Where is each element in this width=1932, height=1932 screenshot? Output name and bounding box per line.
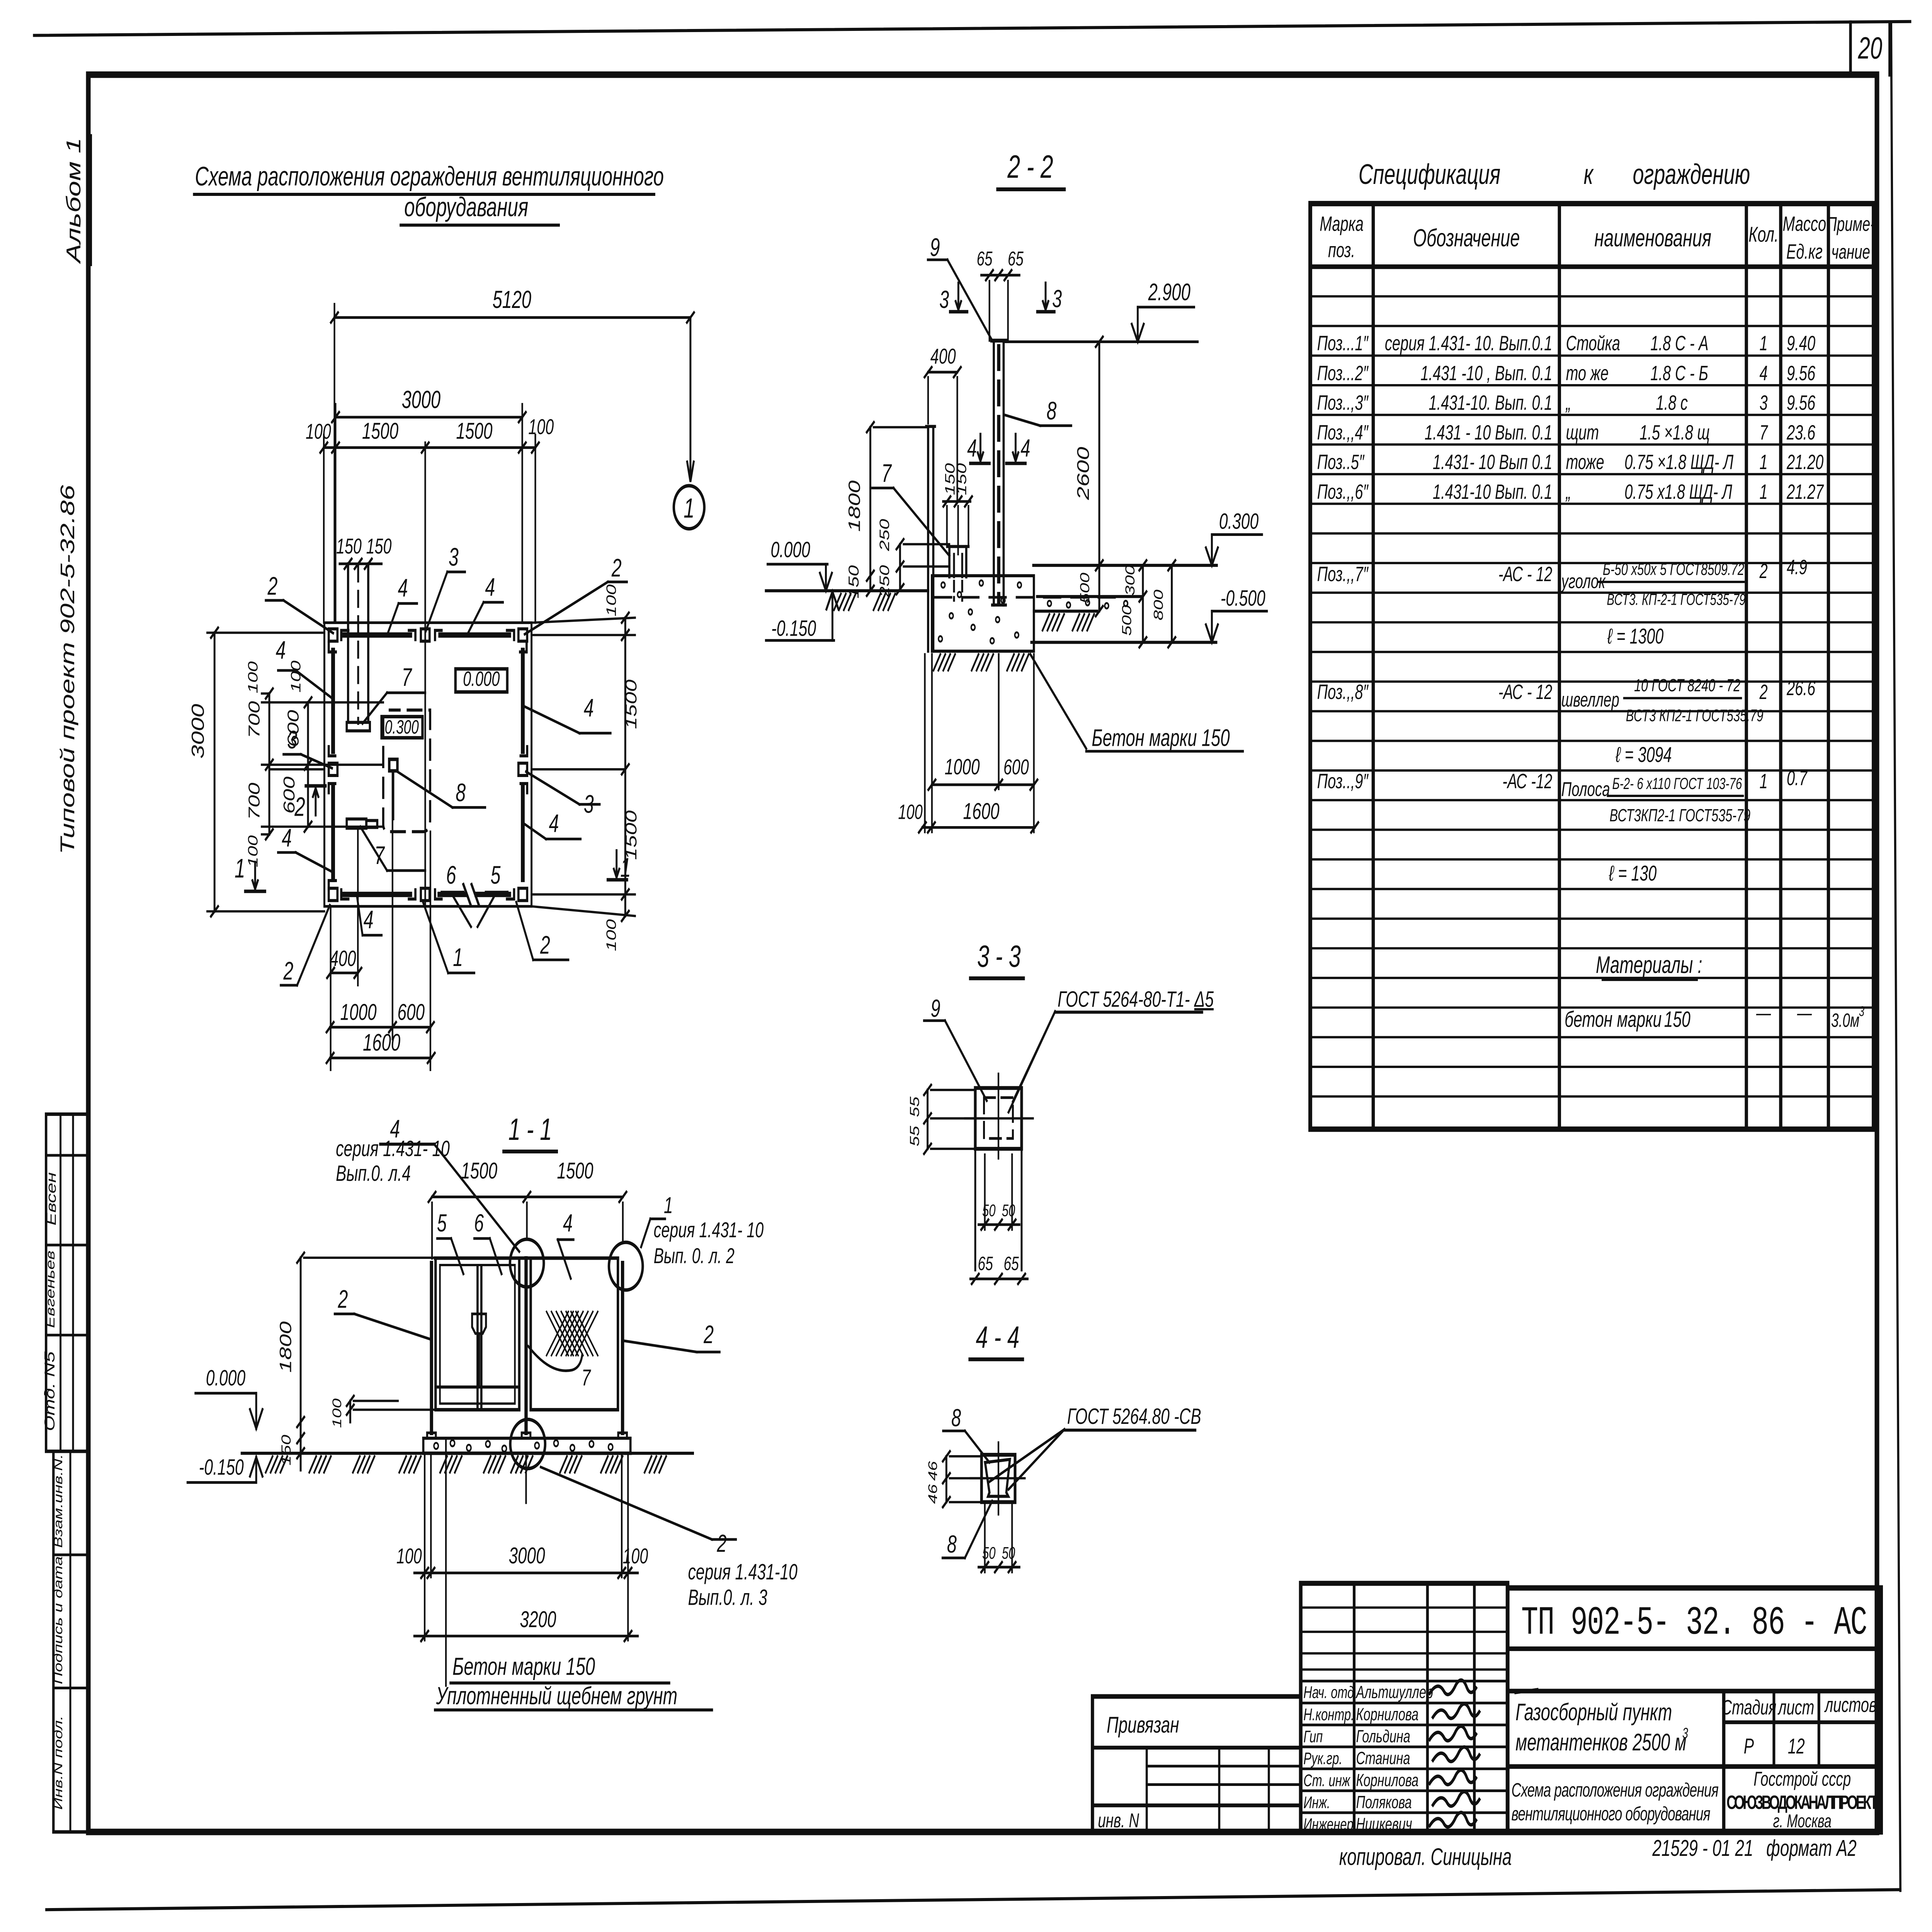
leader 2 (top-left corner post) [284, 600, 333, 633]
svg-text:3 - 3: 3 - 3 [977, 939, 1021, 973]
2-2 right dim 500 (on 2600 line) [1096, 560, 1103, 570]
svg-text:55: 55 [907, 1096, 922, 1117]
plan: right panels (thick) [520, 650, 526, 751]
svg-text:щит: щит [1566, 421, 1599, 444]
svg-text:1500: 1500 [557, 1158, 593, 1184]
plan: 0.000 level frame [456, 669, 507, 692]
svg-text:4: 4 [1759, 362, 1767, 385]
svg-text:4: 4 [485, 573, 495, 602]
svg-text:10 ГОСТ 8240 - 72: 10 ГОСТ 8240 - 72 [1634, 675, 1740, 695]
1-1 dim 3200 [414, 1635, 638, 1638]
svg-text:9.40: 9.40 [1787, 332, 1815, 355]
svg-text:6: 6 [474, 1209, 484, 1237]
svg-text:500: 500 [1078, 573, 1092, 604]
title mid/bottom split [1508, 1764, 1881, 1769]
svg-text:г. Москва: г. Москва [1773, 1811, 1832, 1831]
svg-text:2: 2 [611, 554, 622, 582]
svg-text:1.431 -10 , Вып. 0.1: 1.431 -10 , Вып. 0.1 [1420, 362, 1552, 385]
svg-text:2: 2 [1759, 560, 1768, 583]
svg-text:Вып.0. л.4: Вып.0. л.4 [336, 1161, 411, 1186]
section mark 1 (bottom-left) [254, 862, 257, 889]
leader 4 (left panel lower) [296, 852, 332, 872]
svg-text:300: 300 [1123, 565, 1138, 596]
svg-text:1.431 - 10 Вып. 0.1: 1.431 - 10 Вып. 0.1 [1425, 421, 1553, 444]
svg-text:„: „ [1565, 480, 1571, 503]
1-1 note underlines [451, 1682, 669, 1685]
svg-text:поз.: поз. [1328, 238, 1355, 262]
svg-text:250: 250 [877, 519, 892, 551]
svg-text:3000: 3000 [402, 386, 441, 413]
svg-text:21.20: 21.20 [1786, 451, 1823, 474]
svg-text:ГОСТ 5264-80-Т1- Δ5: ГОСТ 5264-80-Т1- Δ5 [1058, 987, 1214, 1012]
svg-text:2: 2 [703, 1320, 714, 1349]
svg-text:150: 150 [954, 463, 969, 495]
4-4 dim 50/50 (bottom) [978, 1566, 1019, 1568]
1-1 level -0.150 [187, 1481, 256, 1484]
svg-text:4: 4 [398, 574, 408, 602]
svg-text:Вып. 0. л. 2: Вып. 0. л. 2 [654, 1244, 735, 1268]
svg-text:Материалы :: Материалы : [1596, 952, 1702, 978]
plan dim 5120 [335, 316, 690, 319]
1-1 door handle [472, 1314, 486, 1333]
svg-text:1.431-10 Вып. 0.1: 1.431-10 Вып. 0.1 [1433, 480, 1552, 503]
4-4 center lines [997, 1442, 1000, 1514]
signature table label rows [1301, 1680, 1507, 1682]
svg-text:7: 7 [374, 841, 385, 870]
plan post D (mid-left) [329, 763, 338, 776]
spec table row lines [1310, 295, 1874, 298]
svg-text:4: 4 [563, 1209, 573, 1237]
svg-text:Поз.,,6″: Поз.,,6″ [1317, 480, 1369, 503]
2-2 leader 9 [947, 260, 992, 341]
svg-text:50: 50 [982, 1544, 996, 1563]
svg-text:7: 7 [1759, 421, 1768, 444]
spec table header bottom [1310, 264, 1874, 269]
svg-text:3200: 3200 [520, 1606, 556, 1632]
svg-text:3.0м: 3.0м [1831, 1010, 1859, 1031]
3-3 dim 65/65 [970, 1277, 1027, 1280]
2-2 ground line left [766, 589, 928, 592]
svg-text:5120: 5120 [493, 286, 532, 313]
1-1 dim 1800 (left) [299, 1258, 302, 1422]
3-3 base plate square [975, 1088, 1022, 1149]
svg-text:Евгеньев: Евгеньев [43, 1250, 57, 1328]
svg-text:Поз.,,4″: Поз.,,4″ [1317, 421, 1369, 444]
1-1 leader 2 (right) [624, 1341, 697, 1352]
plan: top panels (thick) [344, 632, 410, 638]
svg-text:Полоса: Полоса [1561, 777, 1610, 800]
svg-text:2: 2 [283, 957, 294, 985]
svg-text:ГОСТ 5264.80 -СВ: ГОСТ 5264.80 -СВ [1067, 1404, 1201, 1429]
plan: left panels (thick) [330, 650, 336, 751]
svg-text:оборудавания: оборудавания [404, 192, 528, 222]
svg-text:800: 800 [1151, 590, 1166, 621]
svg-text:4: 4 [584, 694, 594, 723]
svg-text:4: 4 [364, 906, 374, 934]
4-4 leader 8 (bottom) [965, 1501, 992, 1558]
plan post B (top-mid) [421, 629, 430, 641]
svg-text:1600: 1600 [363, 1030, 400, 1056]
leader 7 (bottom plate) [361, 827, 387, 871]
leader 4 (top panel left) [388, 604, 399, 633]
svg-text:1: 1 [1759, 451, 1767, 474]
svg-text:Госстрой ссср: Госстрой ссср [1753, 1767, 1851, 1790]
svg-text:400: 400 [930, 345, 956, 369]
plan: post 8 detail [389, 759, 397, 771]
2-2 level mark 2.900 [1138, 306, 1194, 308]
plan extension lines to pad [262, 701, 383, 704]
leader 6 (gate panel left) [451, 892, 463, 893]
svg-text:7: 7 [402, 663, 413, 692]
svg-text:серия 1.431- 10. Вып.0.1: серия 1.431- 10. Вып.0.1 [1385, 332, 1553, 355]
plan dim 400 [331, 971, 358, 974]
leader 8 (post 8) [397, 772, 452, 808]
svg-text:20: 20 [1858, 31, 1883, 65]
svg-text:Ед.кг: Ед.кг [1786, 240, 1823, 263]
svg-text:серия 1.431- 10: серия 1.431- 10 [336, 1136, 450, 1161]
svg-text:швеллер: швеллер [1561, 688, 1619, 711]
стадия/лист/листов columns [1772, 1691, 1776, 1766]
2-2 bottom dim 1000/600 [932, 783, 1034, 786]
2-2 ground hatch right [1043, 614, 1049, 631]
1-1 label 4 + серия 1.431-10 Вып.0.л.4 [380, 1143, 434, 1146]
svg-text:65: 65 [1003, 1253, 1019, 1274]
svg-text:150: 150 [279, 1435, 294, 1466]
svg-text:Нач. отд: Нач. отд [1303, 1683, 1354, 1702]
svg-text:ТП 902-5- 32. 86 - АС: ТП 902-5- 32. 86 - АС [1521, 1600, 1867, 1646]
svg-text:2 - 2: 2 - 2 [1007, 149, 1053, 185]
svg-text:65: 65 [978, 1253, 993, 1274]
svg-text:4: 4 [1020, 434, 1030, 462]
svg-text:Евсен: Евсен [44, 1172, 59, 1226]
paper bottom edge line [46, 1889, 1900, 1910]
svg-text:50: 50 [982, 1201, 996, 1220]
1-1 left post [429, 1263, 434, 1433]
svg-text:8: 8 [947, 1530, 957, 1558]
plan: element 7 vertical strip [347, 564, 350, 722]
leader 2 (top-right corner post) [525, 582, 608, 634]
spec table outer border [1310, 204, 1874, 1129]
svg-text:21.27: 21.27 [1786, 480, 1824, 503]
svg-text:0.000: 0.000 [463, 667, 500, 690]
plan bottom extension lines [330, 906, 332, 1070]
aux table Привязан [1092, 1696, 1301, 1832]
svg-text:4.9: 4.9 [1787, 556, 1807, 579]
svg-text:5: 5 [437, 1209, 447, 1237]
svg-text:50: 50 [1002, 1544, 1015, 1563]
svg-text:ВСТ3 КП2-1 ГОСТ535.79: ВСТ3 КП2-1 ГОСТ535.79 [1626, 706, 1764, 725]
svg-text:1 - 1: 1 - 1 [509, 1112, 552, 1146]
svg-text:Ницкевич: Ницкевич [1356, 1815, 1412, 1834]
svg-text:1: 1 [1759, 332, 1767, 355]
column mark leader, circle 1 [689, 318, 692, 479]
svg-text:0.000: 0.000 [771, 537, 811, 562]
svg-text:Р: Р [1744, 1734, 1754, 1758]
leader 4 (left panel upper) [296, 670, 332, 699]
svg-text:1: 1 [453, 943, 463, 972]
leader 1 (bottom-mid post) [423, 903, 448, 973]
svg-text:1.431-10. Вып. 0.1: 1.431-10. Вып. 0.1 [1429, 391, 1552, 414]
svg-text:Схема расположения ограждения: Схема расположения ограждения [1512, 1780, 1719, 1801]
svg-text:Массо: Массо [1783, 212, 1827, 235]
svg-text:Б-2- 6 х110 ГОСТ 103-76: Б-2- 6 х110 ГОСТ 103-76 [1612, 774, 1742, 793]
title block: signature table [1301, 1583, 1507, 1832]
2-2 ground hatch left [834, 594, 841, 610]
left stamp table lower [53, 1451, 88, 1832]
svg-text:50: 50 [1002, 1201, 1015, 1220]
leader 5 (gate panel right) [496, 892, 508, 893]
svg-text:ℓ = 130: ℓ = 130 [1609, 861, 1657, 885]
svg-text:2600: 2600 [1074, 447, 1093, 500]
svg-text:3: 3 [1052, 285, 1062, 313]
svg-text:100: 100 [396, 1544, 422, 1568]
svg-text:46: 46 [926, 1484, 940, 1504]
svg-text:1800: 1800 [845, 480, 863, 532]
leader 4 (top panel right) [468, 602, 484, 634]
svg-text:4 - 4: 4 - 4 [976, 1320, 1019, 1354]
plan: bottom gate panels (thick) [439, 892, 465, 897]
svg-text:Инж.: Инж. [1303, 1793, 1330, 1812]
svg-text:-0.150: -0.150 [771, 616, 816, 641]
2-2 right dim 800 [1170, 565, 1173, 642]
svg-text:Альтшуллер: Альтшуллер [1355, 1682, 1433, 1702]
section mark 1 (right) [615, 850, 618, 878]
2-2 section mark 3 (left) [957, 283, 960, 310]
svg-text:Н.контр.: Н.контр. [1303, 1706, 1354, 1724]
plan: centerline vertical [424, 442, 426, 906]
plan dim 1600 [330, 1057, 431, 1060]
svg-text:-0.150: -0.150 [199, 1455, 244, 1480]
left stamp table upper [46, 1114, 88, 1451]
svg-text:Схема расположения ограждени: Схема расположения ограждения вентиляцио… [195, 161, 664, 191]
svg-text:150: 150 [336, 534, 362, 558]
svg-text:6: 6 [446, 861, 456, 889]
plan: element 7 bottom plate [347, 819, 366, 828]
4-4 leader ГОСТ 5264.80-СВ [988, 1429, 1065, 1482]
svg-text:Спецификация: Спецификация [1359, 158, 1500, 190]
svg-text:1.8 С - А: 1.8 С - А [1650, 332, 1708, 355]
3-3 center lines [997, 1074, 1000, 1158]
svg-text:1500: 1500 [456, 418, 492, 444]
2-2 right dims 300/500 [1141, 565, 1144, 642]
svg-text:Поз..5″: Поз..5″ [1317, 451, 1365, 474]
svg-text:копировал. Синицына: копировал. Синицына [1339, 1844, 1512, 1870]
1-1 dim 100 (panel gap) [349, 1401, 352, 1422]
svg-text:1: 1 [1759, 769, 1767, 793]
2-2 dim 2600 [1098, 342, 1100, 611]
2-2 right strip bottom [1034, 610, 1097, 613]
svg-text:ℓ = 1300: ℓ = 1300 [1607, 624, 1664, 648]
svg-text:5: 5 [490, 861, 500, 889]
svg-text:0.300: 0.300 [385, 717, 419, 738]
svg-text:1: 1 [1759, 480, 1767, 503]
1-1 dim 150 (strip) [297, 1433, 304, 1443]
plan dim 1000/600 [330, 1026, 430, 1029]
svg-text:Поз..,9″: Поз..,9″ [1317, 769, 1369, 793]
1-1 mesh hatch [546, 1311, 568, 1355]
svg-text:-0.500: -0.500 [1221, 586, 1265, 611]
4-4 outer square [981, 1455, 1015, 1502]
2-2 foundation pit [932, 574, 1034, 577]
svg-text:3: 3 [1682, 1725, 1688, 1741]
2-2 section mark 4 (right) [1014, 434, 1017, 461]
svg-text:100: 100 [604, 919, 619, 951]
svg-text:100: 100 [528, 415, 554, 439]
svg-text:100: 100 [246, 661, 261, 693]
2-2 dim 400 [928, 371, 957, 374]
svg-text:тоже: тоже [1566, 451, 1604, 474]
4-4 leader 8 (top) [965, 1431, 989, 1463]
svg-text:Корнилова: Корнилова [1356, 1770, 1418, 1790]
2-2 level mark -0.150 (left) [766, 639, 834, 642]
svg-text:Вып.0. л. 3: Вып.0. л. 3 [688, 1585, 767, 1610]
1-1 right post [620, 1263, 625, 1433]
svg-text:ВСТ3КП2-1 ГОСТ535-79: ВСТ3КП2-1 ГОСТ535-79 [1609, 806, 1750, 825]
svg-text:4: 4 [276, 636, 286, 665]
leader 3 (mid-left post) [301, 754, 332, 768]
svg-text:0.75 ×1.8 ЩД- Л: 0.75 ×1.8 ЩД- Л [1624, 451, 1734, 474]
leader 3 (mid-right post) [526, 772, 579, 804]
svg-text:Подпись и дата: Подпись и дата [52, 1556, 65, 1684]
plan: centerline horizontal stubs [270, 768, 324, 770]
svg-text:чание: чание [1832, 240, 1870, 263]
plan dim 600/600 chain [307, 702, 310, 827]
svg-text:4: 4 [549, 810, 559, 838]
2-2 level line 0.300 right [1033, 564, 1217, 567]
spec table column lines [1371, 204, 1376, 1129]
plan: concrete pad dashed outline [383, 710, 430, 832]
leader 2 (bottom-left corner post) [297, 905, 330, 985]
svg-text:серия 1.431-10: серия 1.431-10 [688, 1560, 798, 1585]
svg-text:Типовой проект 902-5-32.86: Типовой проект 902-5-32.86 [57, 485, 78, 854]
2-2 post (double line with dashes) [992, 343, 995, 605]
svg-text:Приме-: Приме- [1827, 213, 1875, 235]
svg-text:100: 100 [288, 660, 303, 692]
2-2 leader Бетон марки 150 [1030, 654, 1086, 748]
svg-text:Станина: Станина [1356, 1748, 1410, 1768]
svg-text:8: 8 [1047, 397, 1057, 425]
plan: bottom panels (thick) [344, 892, 410, 897]
svg-text:3: 3 [287, 726, 297, 754]
svg-text:600: 600 [397, 999, 425, 1025]
svg-text:0.300: 0.300 [1219, 509, 1259, 534]
svg-text:700: 700 [245, 701, 263, 738]
svg-text:Газосборный пункт: Газосборный пункт [1515, 1699, 1672, 1726]
svg-text:4: 4 [282, 824, 292, 852]
svg-text:ℓ = 3094: ℓ = 3094 [1615, 743, 1672, 767]
svg-text:лист: лист [1777, 1696, 1815, 1719]
svg-text:700: 700 [245, 782, 263, 820]
svg-text:1000: 1000 [340, 999, 377, 1025]
svg-text:1500: 1500 [622, 679, 640, 729]
svg-text:2: 2 [267, 572, 278, 600]
1-1 concrete strip [423, 1437, 631, 1440]
svg-text:2: 2 [1759, 680, 1768, 703]
plan right dim chain 100/1500/1500/100 [624, 618, 627, 916]
svg-text:9: 9 [930, 233, 940, 262]
2-2 section mark 3 (right) [1044, 283, 1047, 310]
svg-text:метантенков 2500 м: метантенков 2500 м [1515, 1730, 1686, 1756]
svg-text:8: 8 [456, 779, 466, 807]
1-1 leader 7 (mesh) [528, 1346, 582, 1371]
svg-text:3: 3 [1759, 391, 1767, 414]
svg-text:инв. N: инв. N [1098, 1809, 1139, 1832]
svg-text:—: — [1797, 1001, 1812, 1024]
3-3 leader ГОСТ 5264-80-Т1 [1013, 1012, 1055, 1102]
materials underline [1603, 978, 1697, 981]
svg-text:Стадия: Стадия [1721, 1696, 1777, 1719]
svg-text:2: 2 [717, 1529, 727, 1557]
svg-text:1600: 1600 [963, 798, 999, 824]
svg-text:1.5 ×1.8 щ: 1.5 ×1.8 щ [1639, 421, 1710, 444]
1-1 left gate panel [435, 1258, 519, 1410]
1-1 labels 5 6 4 leaders [437, 1237, 451, 1240]
plan dim 700/700 chain [268, 694, 270, 835]
paper right edge line [1891, 23, 1900, 1891]
2-2 foundation dashed mid line [935, 596, 1121, 599]
1-1 middle post [524, 1259, 528, 1433]
svg-text:1: 1 [235, 853, 245, 883]
2-2 concrete dots [941, 582, 945, 588]
svg-text:600: 600 [1003, 755, 1029, 779]
2-2 dim 250/250 [899, 544, 901, 589]
svg-text:100: 100 [604, 584, 619, 616]
svg-text:1.8 с: 1.8 с [1656, 391, 1688, 414]
svg-text:0.000: 0.000 [206, 1366, 246, 1391]
svg-text:Гольдина: Гольдина [1356, 1727, 1410, 1747]
svg-text:к: к [1583, 158, 1594, 190]
svg-text:наименования: наименования [1594, 224, 1711, 252]
2-2 section mark 4 (left) [979, 434, 982, 461]
svg-text:Обозначение: Обозначение [1413, 224, 1520, 252]
svg-text:65: 65 [1008, 247, 1024, 270]
svg-text:Поз...1″: Поз...1″ [1317, 332, 1369, 355]
3-3 post dashed cross-section [984, 1098, 1013, 1139]
plan post H (bottom-right) [519, 888, 527, 901]
svg-text:листов: листов [1824, 1693, 1877, 1716]
1-1 right panel [531, 1258, 618, 1410]
svg-text:Стойка: Стойка [1566, 332, 1620, 355]
svg-text:1800: 1800 [276, 1321, 294, 1372]
svg-text:1500: 1500 [461, 1158, 497, 1184]
svg-text:9: 9 [930, 995, 940, 1022]
svg-text:Уплотненный щебнем грунт: Уплотненный щебнем грунт [436, 1682, 677, 1710]
svg-text:то же: то же [1566, 362, 1609, 385]
plan: fence outer boundary [324, 623, 531, 906]
svg-text:2: 2 [338, 1285, 348, 1314]
svg-text:Корнилова: Корнилова [1356, 1705, 1418, 1725]
svg-text:ограждению: ограждению [1633, 158, 1750, 190]
svg-text:Альбом 1: Альбом 1 [62, 138, 85, 265]
plan: 0.300 level frame [382, 717, 423, 738]
svg-text:150: 150 [1664, 1007, 1690, 1032]
2-2 left panel edge [927, 429, 930, 651]
svg-text:7: 7 [582, 1364, 591, 1390]
svg-text:Гип: Гип [1303, 1728, 1323, 1746]
2-2 level line 2.900 [1003, 340, 1197, 343]
svg-text:ВСТ3. КП-2-1 ГОСТ535-79: ВСТ3. КП-2-1 ГОСТ535-79 [1607, 590, 1745, 609]
2-2 ground hatch below pit [934, 654, 940, 670]
2-2 dim 150/150 (bracket) [943, 500, 971, 503]
3-3 dim 50/50 [978, 1223, 1019, 1226]
svg-text:Инженер: Инженер [1303, 1815, 1353, 1834]
2-2 right strip top [1037, 595, 1142, 598]
svg-text:2.900: 2.900 [1148, 279, 1190, 306]
svg-text:-АС -12: -АС -12 [1502, 769, 1552, 793]
svg-text:150: 150 [846, 565, 862, 599]
2-2 dim 150 (below 1800) [867, 571, 874, 581]
svg-text:100: 100 [306, 420, 331, 444]
